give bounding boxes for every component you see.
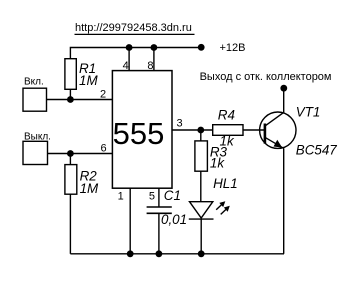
node C1 rail junction — [156, 250, 163, 257]
resistor R3 — [195, 130, 228, 171]
svg-text:BC547: BC547 — [296, 143, 337, 158]
wire top supply rail — [70, 48, 201, 59]
url label http://299792458.3dn.ru — [75, 22, 195, 35]
svg-text:1M: 1M — [79, 73, 98, 88]
wire C1 to rail — [158, 213, 160, 254]
wire emitter to rail — [283, 148, 285, 254]
svg-text:R4: R4 — [218, 107, 235, 122]
svg-text:Вкл.: Вкл. — [24, 76, 44, 87]
wire pin 8 — [153, 48, 155, 71]
switch S1 Вкл — [23, 76, 47, 111]
resistor R2 — [65, 154, 99, 197]
wire pin 4 — [128, 48, 130, 71]
wire R2 bottom lead — [69, 194, 71, 254]
LED HL1 — [189, 201, 230, 219]
wire pin 6 — [48, 153, 113, 155]
node LED rail junction — [198, 250, 205, 257]
wire R3 to LED — [200, 171, 202, 202]
switch S2 Выкл — [23, 131, 51, 164]
node pin3 R3 R4 junction — [197, 127, 204, 134]
node pin1 rail junction — [127, 250, 134, 257]
svg-text:5: 5 — [149, 190, 155, 202]
svg-text:+12В: +12В — [220, 42, 246, 54]
wire pin 1 — [129, 188, 131, 254]
svg-text:HL1: HL1 — [213, 176, 238, 191]
svg-text:3: 3 — [177, 118, 183, 130]
resistor R4 — [213, 107, 243, 148]
svg-text:2: 2 — [100, 88, 106, 100]
svg-text:C1: C1 — [164, 188, 181, 203]
wire pin 2 — [47, 99, 113, 101]
node R1 S1 pin2 junction — [67, 96, 74, 103]
svg-text:http://299792458.3dn.ru: http://299792458.3dn.ru — [75, 22, 192, 34]
svg-text:1: 1 — [118, 190, 124, 202]
transistor Q1 VT1 BC547 — [260, 88, 296, 148]
node R2 S2 pin6 junction — [67, 150, 74, 157]
svg-text:1k: 1k — [210, 155, 225, 170]
wire bottom ground rail — [70, 253, 284, 255]
svg-text:1M: 1M — [80, 181, 99, 196]
op-amp U1 555 timer — [112, 71, 172, 189]
svg-text:555: 555 — [113, 116, 165, 151]
node pin8 junction — [151, 44, 158, 51]
node output terminal — [280, 85, 287, 92]
svg-text:0,01: 0,01 — [161, 212, 187, 227]
node pin4 junction — [126, 44, 133, 51]
resistor R1 — [65, 59, 99, 90]
node +12V terminal — [198, 44, 205, 51]
wire pin 5 — [158, 188, 160, 207]
svg-text:Выход с отк. коллектором: Выход с отк. коллектором — [200, 71, 332, 83]
wire R1 bottom lead — [69, 89, 71, 99]
wire pin 3 — [172, 129, 213, 131]
capacitor C1 — [147, 188, 187, 227]
wire R4 to base — [243, 129, 265, 131]
svg-text:6: 6 — [101, 142, 107, 154]
wire LED to rail — [200, 219, 202, 254]
svg-text:VT1: VT1 — [296, 105, 321, 120]
